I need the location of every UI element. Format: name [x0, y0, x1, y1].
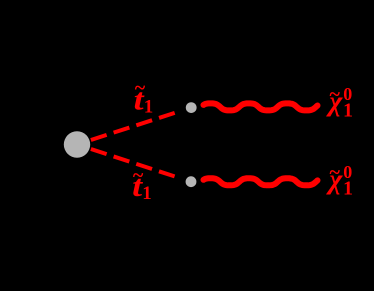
node: top decay vertex	[186, 102, 197, 113]
label: stop t1-tilde (bottom)	[132, 165, 152, 204]
svg-text:~: ~	[330, 161, 341, 183]
svg-text:1: 1	[343, 100, 353, 122]
svg-text:1: 1	[142, 183, 152, 204]
node: production blob	[64, 131, 90, 157]
node: bottom decay vertex	[186, 176, 197, 187]
wire: dashed stop propagator (bottom)	[91, 149, 175, 176]
label: neutralino chi_1^0 (top right)	[325, 83, 353, 121]
label: neutralino chi_1^0 (bottom right)	[325, 161, 353, 199]
wire: wavy neutralino line (top)	[204, 103, 318, 110]
wire: wavy neutralino line (bottom)	[204, 178, 318, 185]
svg-text:1: 1	[343, 178, 353, 200]
svg-text:1: 1	[144, 96, 154, 117]
label: stop t1-tilde (top)	[134, 77, 154, 117]
svg-text:~: ~	[330, 83, 341, 105]
wire: dashed stop propagator (top)	[91, 113, 175, 140]
